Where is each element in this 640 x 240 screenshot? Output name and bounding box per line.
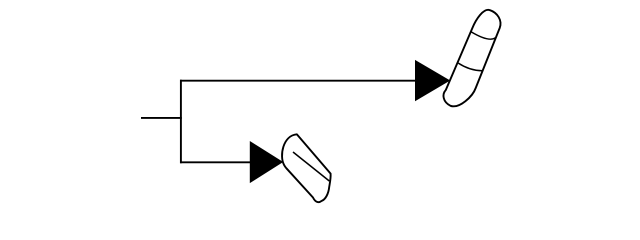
arrowhead (bottom) bbox=[250, 141, 283, 183]
wire: top branch bbox=[180, 80, 415, 82]
arrowhead (top) bbox=[415, 60, 450, 101]
finger crease line 1 bbox=[471, 32, 496, 40]
wire: input stub bbox=[141, 117, 182, 119]
wire: vertical branch bbox=[180, 80, 182, 164]
thumb (bottom capsule) bbox=[282, 134, 331, 202]
wire: bottom branch bbox=[180, 161, 250, 163]
thumb nail line bbox=[293, 152, 329, 181]
finger (top capsule) bbox=[443, 10, 500, 106]
finger crease line 2 bbox=[458, 63, 482, 71]
